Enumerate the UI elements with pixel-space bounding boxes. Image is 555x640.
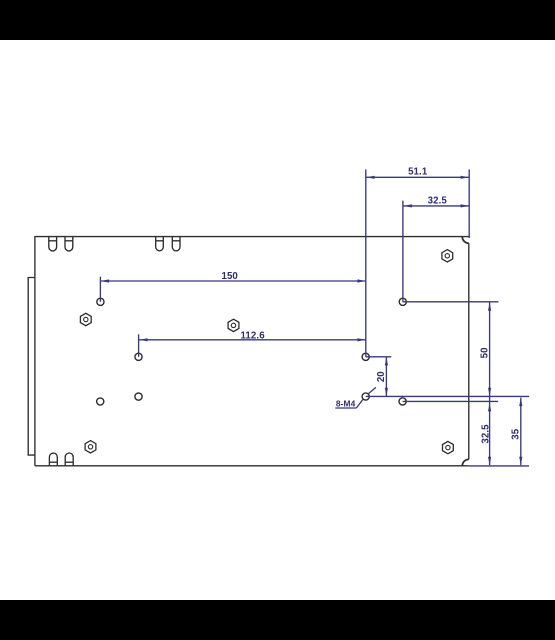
hole R3 [362,393,369,400]
corner bend top-right [462,237,469,244]
arrow 32.5 top right [461,204,470,207]
top letterbox bar [0,0,555,40]
svg-text:50: 50 [479,347,490,358]
dim 150 line [101,280,366,282]
leader 8-M4 [335,407,356,409]
arrow 112.6 right [357,338,366,341]
dim 35 line [520,398,522,466]
top slot 3 [156,237,164,251]
bottom extension line [469,465,529,467]
hole R2 [362,353,369,360]
bottom letterbox bar [0,600,555,640]
arrow 35 up [519,398,522,407]
top slot 1 [49,237,57,251]
svg-text:8-M4: 8-M4 [336,398,356,408]
svg-text:32.5: 32.5 [428,196,448,207]
svg-text:35: 35 [511,428,522,439]
arrow 150 right [357,279,366,282]
arrow 112.6 left [139,338,148,341]
dim 112.6 extension line [138,334,140,357]
hole L2 [135,353,142,360]
dim 51.1 line [366,176,469,178]
chassis outline [35,237,469,466]
hex standoff left-top [80,313,91,325]
dim 20 line [385,357,387,396]
arrow 32.5 right down [488,457,491,466]
corner bend bottom-right [462,459,469,465]
arrow 50 up [488,302,491,311]
dim 51.1 right extension [468,169,470,238]
svg-text:112.6: 112.6 [240,330,265,341]
left flange [28,278,35,456]
hole R2 extension line [366,356,392,358]
arrow 50 down [488,388,491,397]
hole R4 [399,398,406,405]
arrow 51.1 left [366,176,375,179]
arrow 150 left [101,279,110,282]
hex standoff right-bottom [443,441,454,453]
dim 112.6 line [139,339,366,341]
hole R4 extension line [403,400,499,402]
arrow 32.5 right up [488,403,491,412]
bottom slot 2 [65,453,73,466]
dim 150 extension line [99,277,101,302]
svg-text:20: 20 [376,371,387,382]
hole L1 [97,298,104,305]
hex standoff left-bottom [85,441,96,453]
svg-text:150: 150 [221,271,237,282]
arrow 20 up [385,357,388,366]
arrow 51.1 right [461,176,470,179]
bottom slot 1 [49,453,57,466]
hole R1 extension line [403,301,499,303]
hex standoff center [228,319,239,331]
top slot 4 [172,237,180,251]
svg-text:51.1: 51.1 [408,167,428,178]
svg-text:32.5: 32.5 [480,424,491,444]
dim 32.5 top line [403,205,469,207]
hole R3 extension line [366,395,529,397]
dim 51.1 left extension [365,169,367,356]
arrow 35 down [519,457,522,466]
top slot 2 [65,237,73,251]
dim 32.5 top extension [402,201,404,302]
arrow 20 down [385,388,388,397]
dim 50 / 32.5 right line [489,302,491,465]
arrow 32.5 top left [403,204,412,207]
hole L3 [135,393,142,400]
hole R1 [399,298,406,305]
hex standoff right-top [442,250,453,262]
hole L4 [97,398,104,405]
